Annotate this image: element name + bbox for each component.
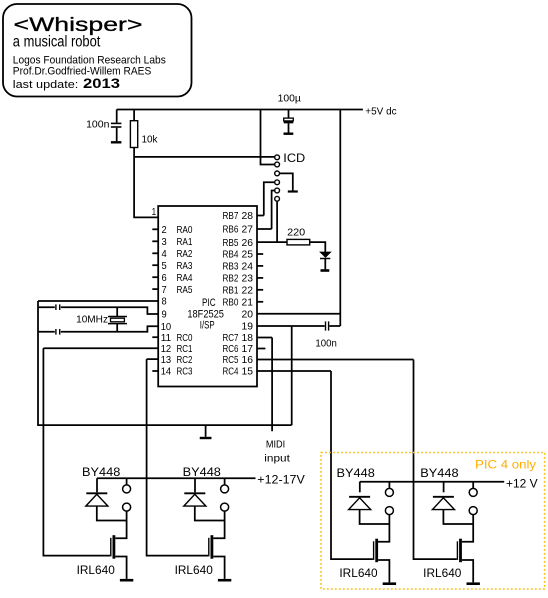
svg-text:RA4: RA4 (177, 272, 193, 284)
svg-text:22: 22 (242, 285, 254, 297)
svg-text:RC2: RC2 (177, 354, 193, 366)
svg-text:BY448: BY448 (420, 468, 458, 480)
svg-text:RA0: RA0 (177, 224, 193, 236)
svg-text:a musical robot: a musical robot (13, 34, 101, 51)
svg-text:100n: 100n (86, 118, 109, 130)
svg-text:RC7: RC7 (223, 332, 239, 344)
svg-text:BY448: BY448 (337, 468, 375, 480)
svg-text:RA3: RA3 (177, 260, 193, 272)
svg-text:RB1: RB1 (223, 285, 239, 297)
svg-text:RA1: RA1 (177, 236, 193, 248)
svg-text:21: 21 (242, 297, 254, 309)
svg-text:25: 25 (242, 249, 254, 261)
svg-text:last update:: last update: (13, 79, 79, 91)
svg-text:RB4: RB4 (223, 249, 239, 261)
svg-text:RB0: RB0 (223, 297, 239, 309)
svg-text:7: 7 (162, 284, 167, 296)
svg-text:17: 17 (242, 343, 254, 355)
svg-text:IRL640: IRL640 (77, 565, 115, 577)
svg-text:27: 27 (242, 224, 254, 236)
svg-text:RC4: RC4 (223, 366, 239, 378)
svg-text:5: 5 (162, 260, 167, 272)
svg-text:IRL640: IRL640 (423, 568, 461, 580)
svg-text:19: 19 (242, 321, 254, 333)
svg-text:28: 28 (242, 210, 254, 222)
svg-text:RC6: RC6 (223, 343, 239, 355)
svg-text:I/SP: I/SP (200, 320, 215, 332)
svg-text:23: 23 (242, 273, 254, 285)
svg-text:220: 220 (287, 226, 305, 238)
svg-text:IRL640: IRL640 (339, 568, 377, 580)
svg-text:<Whisper>: <Whisper> (14, 14, 143, 36)
svg-text:2: 2 (162, 224, 167, 236)
svg-text:2013: 2013 (83, 75, 120, 91)
svg-text:4: 4 (162, 248, 167, 260)
svg-text:100n: 100n (315, 337, 337, 349)
svg-text:+5V dc: +5V dc (365, 106, 396, 118)
svg-text:1: 1 (152, 206, 157, 218)
svg-text:15: 15 (242, 366, 254, 378)
svg-text:+12-17V: +12-17V (257, 473, 305, 487)
svg-text:16: 16 (242, 354, 254, 366)
svg-text:10MHz: 10MHz (76, 313, 108, 325)
svg-text:ICD: ICD (283, 151, 305, 165)
svg-text:100µ: 100µ (278, 93, 301, 105)
svg-text:10k: 10k (142, 134, 159, 146)
svg-text:14: 14 (161, 366, 172, 378)
svg-text:RB6: RB6 (223, 224, 239, 236)
svg-text:RC3: RC3 (177, 366, 193, 378)
svg-text:24: 24 (242, 261, 254, 273)
svg-text:RB2: RB2 (223, 273, 239, 285)
svg-text:BY448: BY448 (183, 467, 221, 479)
svg-text:input: input (264, 452, 290, 464)
svg-text:18: 18 (242, 332, 254, 344)
svg-text:+12 V: +12 V (506, 477, 538, 491)
svg-text:RC5: RC5 (223, 354, 239, 366)
svg-text:RB5: RB5 (223, 237, 239, 249)
svg-text:RA2: RA2 (177, 248, 193, 260)
svg-text:RB7: RB7 (223, 210, 239, 222)
svg-text:26: 26 (242, 237, 254, 249)
svg-text:3: 3 (162, 236, 167, 248)
svg-text:PIC: PIC (202, 297, 216, 309)
svg-text:PIC 4 only: PIC 4 only (475, 458, 536, 472)
svg-text:IRL640: IRL640 (175, 565, 213, 577)
svg-text:RA5: RA5 (177, 284, 193, 296)
svg-text:20: 20 (242, 308, 254, 320)
svg-text:6: 6 (162, 272, 167, 284)
svg-text:8: 8 (162, 296, 167, 308)
svg-text:BY448: BY448 (82, 467, 120, 479)
svg-text:13: 13 (161, 354, 172, 366)
svg-text:9: 9 (162, 309, 167, 321)
svg-text:RB3: RB3 (223, 261, 239, 273)
svg-text:MIDI: MIDI (266, 439, 285, 451)
